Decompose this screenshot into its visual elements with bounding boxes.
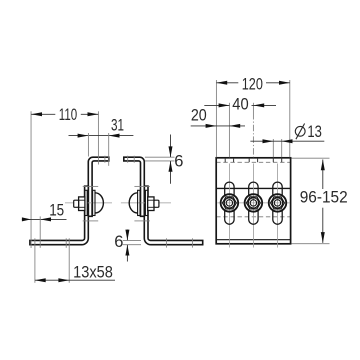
svg-text:6: 6: [114, 233, 123, 251]
dimension 96-152: extension lines: [292, 157, 330, 159]
slot mark in left top flange: [104, 156, 106, 163]
dimension dia13: line: [250, 140, 324, 142]
dimension dia13: diameter symbol: [295, 126, 305, 136]
bottom flange fold line: [216, 239, 290, 241]
svg-text:120: 120: [242, 76, 263, 94]
slot marks in right top flange: [127, 156, 129, 163]
dimension 13x58: line: [35, 279, 115, 281]
dimension 6 (bottom): arrows: [125, 230, 129, 241]
bolt column 3: [266, 159, 290, 248]
dimension 120: extension lines: [215, 80, 217, 157]
dimension 31: line: [69, 135, 134, 137]
dimension 31: extension lines: [87, 133, 89, 157]
dimension 13x58: extension lines: [34, 238, 36, 282]
svg-text:15: 15: [49, 201, 64, 219]
dimension 40: line: [204, 104, 229, 106]
dimension 40: extension line bolt1: [228, 103, 230, 158]
left bolt: hammer-head dome: [95, 193, 103, 213]
dimension dia13: arrows: [263, 139, 274, 143]
dimension 6 (bottom): arrow lines: [126, 230, 128, 241]
hidden edge (dashed) upper: [216, 161, 290, 163]
svg-text:13x58: 13x58: [73, 263, 113, 281]
dimension 110: line: [31, 113, 55, 115]
right bolt centerline: [121, 202, 171, 204]
svg-text:20: 20: [191, 107, 207, 125]
left bolt: washer strip: [85, 190, 87, 215]
dimension 120: arrows: [216, 81, 227, 85]
dimension 13x58: arrows: [35, 278, 46, 282]
right bracket foot part (outer plate + bottom flange, mirror): [144, 186, 202, 245]
right bolt: hex head flange: [148, 197, 154, 211]
left bolt slot projection lines: [83, 185, 99, 187]
left bracket foot part (outer plate + bottom flange): [30, 186, 88, 245]
dimension dia13: extension lines: [272, 139, 274, 157]
dimension 96-152: arrows: [321, 160, 325, 171]
dimension 120: line: [216, 82, 238, 84]
left bolt: backing strip behind plate: [93, 190, 95, 215]
dimension 31: arrows: [78, 134, 89, 138]
right bolt: hex head end: [154, 200, 159, 207]
bolt column 2: [241, 159, 265, 248]
dimension 40: arrows: [219, 103, 230, 107]
dimension 20: line: [191, 125, 245, 127]
dimension 15: arrows: [22, 217, 31, 221]
svg-text:40: 40: [232, 95, 248, 113]
dimension 15: extension line: [39, 216, 41, 247]
left bolt: hex head flange: [79, 197, 85, 211]
dimension 110: arrows: [31, 112, 42, 116]
bolt column 1: [217, 159, 241, 248]
right bolt: backing strip behind plate: [138, 190, 140, 215]
dimension 40: extension/centerline bolt2: [252, 103, 254, 113]
dimension 6 (top): arrow lines: [170, 135, 172, 158]
left bolt centerline: [65, 202, 112, 204]
right bolt: washer strip: [145, 190, 147, 215]
svg-text:31: 31: [111, 116, 124, 134]
svg-text:13: 13: [307, 123, 322, 141]
svg-text:6: 6: [174, 153, 183, 171]
left bolt: hex head end: [74, 200, 79, 207]
slot mark in left bottom flange: [65, 238, 67, 248]
svg-text:96-152: 96-152: [300, 189, 348, 207]
dimension 6 (top flange thickness): extension lines: [145, 156, 175, 158]
dimension 6 (top): arrows: [169, 146, 173, 157]
right bracket upper part (top flange + inner plate, mirror): [124, 157, 145, 216]
hidden edge (dashed) lower: [216, 216, 290, 218]
dimension 110: extension lines: [30, 111, 32, 248]
dimension 6 (bottom flange thickness): extension lines: [123, 239, 141, 241]
dimension 15: line: [22, 218, 67, 220]
right bolt slot projection lines: [134, 185, 150, 187]
svg-text:110: 110: [59, 106, 77, 124]
front plate top edge: [216, 187, 290, 189]
dimension 20: arrows: [206, 124, 217, 128]
left bracket upper part (top flange + inner plate): [88, 157, 109, 216]
right bolt: hammer-head dome: [129, 193, 137, 213]
plate outline: [216, 158, 290, 244]
slot marks in right bottom flange: [165, 238, 167, 247]
dimension 96-152: line: [322, 160, 324, 190]
